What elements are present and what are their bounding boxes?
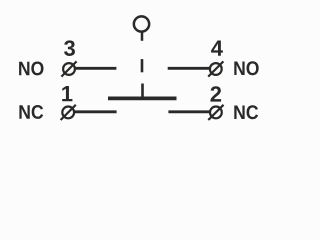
net label NO left	[19, 62, 43, 76]
terminal 4	[208, 61, 223, 76]
pin label 2	[211, 86, 222, 101]
dashed actuator link segment 2	[141, 84, 144, 98]
wire NC right	[168, 110, 209, 113]
net label NC right	[234, 105, 258, 119]
pin label 3	[64, 40, 75, 56]
dashed actuator link segment 1	[141, 59, 144, 72]
net label NC left	[19, 105, 43, 119]
pushbutton actuator circle	[134, 16, 149, 31]
terminal 2	[208, 105, 223, 120]
pin label 1	[62, 86, 72, 101]
movable contact bridge bar	[108, 97, 177, 101]
pin label 4	[211, 41, 223, 56]
terminal 1	[61, 105, 76, 120]
actuator stem	[141, 32, 144, 41]
wire NC left	[75, 110, 117, 113]
wire NO left	[76, 67, 117, 70]
wire NO right	[168, 67, 209, 70]
net label NO right	[234, 61, 258, 75]
terminal 3	[61, 61, 76, 76]
